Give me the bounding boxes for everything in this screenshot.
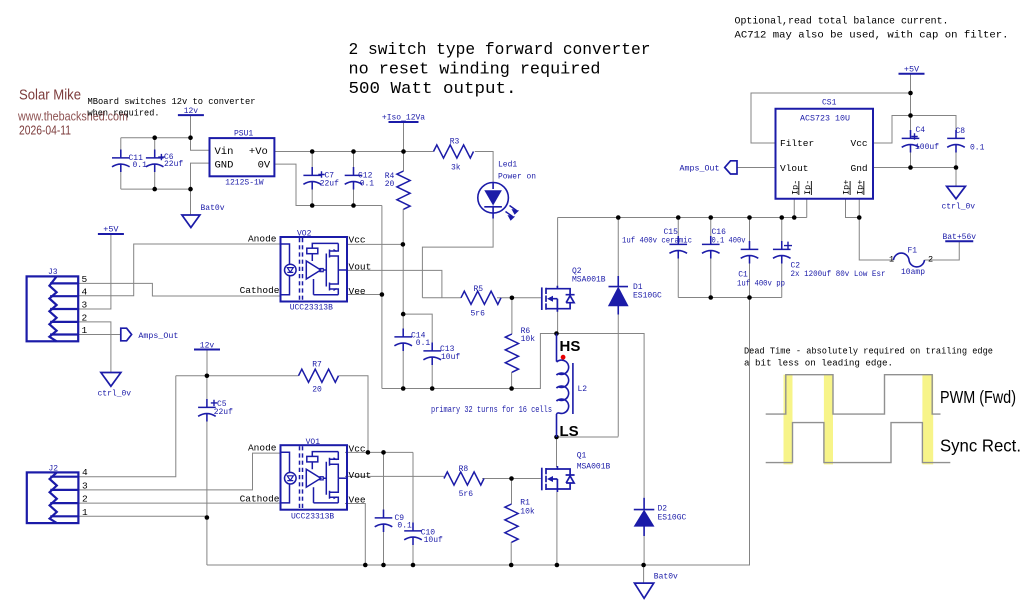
svg-text:Led1: Led1 — [498, 161, 517, 170]
wire junction at 353.5,205.5 — [351, 203, 356, 208]
svg-text:12v: 12v — [184, 107, 199, 116]
wire R3 to LED — [475, 152, 493, 183]
svg-text:2x 1200uf 80v Low Esr: 2x 1200uf 80v Low Esr — [791, 270, 886, 279]
wire C13 branch — [403, 314, 432, 388]
wire junction at 910.5,115.5 — [908, 113, 913, 118]
wire junction at 312.2,205.5 — [310, 203, 315, 208]
svg-text:LS: LS — [560, 423, 579, 440]
svg-text:3k: 3k — [451, 164, 461, 173]
capacitor C4 — [902, 130, 920, 153]
wire junction at 511.6,388.5 — [509, 386, 514, 391]
op-amp VO1 UCC23313B gate driver — [281, 445, 348, 510]
wire junction at 511.9,297.8 — [510, 296, 515, 301]
svg-text:Bat0v: Bat0v — [201, 204, 225, 213]
wire junction at 154.7,137.7 — [152, 135, 157, 140]
transistor Q1 MSA001B — [542, 466, 575, 492]
capacitor C15 — [669, 236, 687, 259]
svg-text:Vee: Vee — [349, 286, 366, 297]
svg-text:0.1: 0.1 — [360, 179, 375, 188]
svg-text:Solar Mike: Solar Mike — [19, 88, 81, 104]
wire VO1 vcc — [345, 452, 413, 565]
svg-text:10uf: 10uf — [441, 353, 460, 362]
wire junction at 413,565 — [411, 563, 416, 568]
svg-text:20: 20 — [385, 180, 395, 189]
capacitor C13 — [423, 343, 441, 366]
wire CS1 vcc branch — [873, 116, 956, 144]
wire VO2 vcc — [347, 243, 403, 245]
wire R1 stubs — [510, 479, 512, 566]
phase dot (red) — [561, 355, 566, 360]
capacitor C9 — [375, 510, 393, 533]
inductor L2 — [556, 334, 558, 362]
capacitor C8 — [947, 130, 965, 153]
svg-text:+5V: +5V — [103, 225, 119, 235]
wire CS1 gnd to ctrl_0v — [873, 153, 956, 187]
wire junction at 710.75,217.5 — [708, 215, 713, 220]
wire VO2 vee / 0V column — [347, 206, 557, 389]
svg-text:MSA001B: MSA001B — [577, 463, 611, 472]
wire R4 column — [402, 152, 404, 389]
svg-text:J2: J2 — [49, 465, 59, 474]
resistor R6 — [505, 334, 518, 372]
resistor R7 — [299, 369, 339, 382]
wire junction at 403.2,314.1 — [401, 312, 406, 317]
wire HV bus — [558, 199, 807, 218]
svg-text:10uf: 10uf — [424, 536, 443, 545]
svg-text:0.1: 0.1 — [416, 339, 431, 348]
svg-text:100uf: 100uf — [915, 143, 939, 152]
capacitor C16 — [702, 236, 720, 259]
svg-text:Vee: Vee — [349, 495, 366, 506]
svg-text:R3: R3 — [450, 138, 460, 147]
svg-text:Vin: Vin — [215, 146, 234, 158]
wire junction at 402.9,244.4 — [401, 242, 406, 247]
svg-text:no reset winding required: no reset winding required — [349, 60, 601, 79]
svg-text:5: 5 — [82, 274, 88, 285]
svg-text:ES10GC: ES10GC — [633, 292, 662, 301]
svg-text:D2: D2 — [658, 505, 668, 514]
resistor R3 — [434, 145, 474, 158]
svg-text:0.1: 0.1 — [970, 144, 985, 153]
svg-text:R8: R8 — [459, 465, 469, 474]
svg-text:Gnd: Gnd — [851, 163, 868, 174]
wire junction at 556.5,333.5 — [554, 331, 559, 336]
svg-text:0.1 400v: 0.1 400v — [712, 236, 746, 245]
wire junction at 190.5,189.1 — [188, 187, 193, 192]
svg-text:10k: 10k — [521, 335, 536, 344]
capacitor C11 — [112, 150, 130, 173]
power rail +Iso_12Va — [389, 121, 419, 123]
wire junction at 365.3,565 — [363, 563, 368, 568]
svg-text:5r6: 5r6 — [459, 490, 474, 499]
wire J2 pin2 to VO1 cathode — [79, 502, 281, 504]
wire C11 C6 top stubs — [121, 138, 155, 150]
svg-text:R7: R7 — [312, 361, 322, 370]
svg-text:PWM (Fwd): PWM (Fwd) — [940, 387, 1016, 407]
converter PSU1 1212S-1W — [210, 138, 275, 176]
wire J2 pin4 up to 12v bus — [79, 376, 176, 477]
svg-text:when required.: when required. — [88, 109, 160, 119]
wire bottom rail — [207, 298, 750, 566]
svg-text:20: 20 — [312, 385, 322, 394]
wire junction at 206.9,517.5 — [205, 515, 210, 520]
wire J2 pin1 — [79, 515, 207, 517]
svg-text:3: 3 — [82, 480, 88, 491]
svg-text:2: 2 — [82, 312, 88, 323]
wire 12v top rail to PSU1 — [121, 116, 210, 151]
LED Led1 Power on — [478, 183, 509, 214]
wire junction at 403.5,151.5 — [401, 149, 406, 154]
svg-text:Anode: Anode — [248, 443, 277, 454]
svg-text:Optional,read total balance cu: Optional,read total balance current. — [735, 16, 949, 28]
wire junction at 618.25,217.5 — [616, 215, 621, 220]
diode D2 ES10GC — [634, 498, 655, 536]
svg-text:C8: C8 — [956, 127, 966, 136]
wire junction at 511.2,565 — [509, 563, 514, 568]
svg-text:0.1: 0.1 — [133, 161, 148, 170]
svg-text:1uf 400v ceramic: 1uf 400v ceramic — [622, 236, 692, 245]
svg-text:GND: GND — [215, 159, 234, 171]
svg-text:Cathode: Cathode — [240, 285, 280, 296]
wire C11 C6 bottom rail / GND return — [121, 163, 210, 215]
svg-text:Filter: Filter — [780, 138, 814, 149]
svg-text:+Vo: +Vo — [249, 146, 268, 158]
wire C5 column — [206, 376, 208, 565]
wire junction at 794.25,217.5 — [792, 215, 797, 220]
wire +Iso_12Va stub — [403, 123, 405, 152]
power rail +5V (right) — [899, 73, 925, 75]
wire CS1 filter loop — [751, 74, 911, 168]
wire J3 pin5 to VO2 cathode — [78, 283, 280, 296]
wire Q1 source / bottom — [556, 492, 558, 565]
svg-text:10k: 10k — [520, 508, 535, 517]
svg-text:primary 32 turns for 16 cells: primary 32 turns for 16 cells — [431, 405, 552, 415]
svg-text:AC712 may also be used, with c: AC712 may also be used, with cap on filt… — [735, 30, 1009, 42]
svg-text:MBoard switches 12v to convert: MBoard switches 12v to converter — [88, 97, 256, 107]
wire HS to D2 — [557, 334, 645, 498]
svg-text:2026-04-11: 2026-04-11 — [19, 124, 71, 138]
svg-text:0.1: 0.1 — [397, 521, 412, 530]
svg-text:5r6: 5r6 — [471, 310, 486, 319]
resistor R8 — [444, 472, 484, 485]
svg-text:3: 3 — [82, 300, 88, 311]
node Amps_Out (right, CS1) — [725, 161, 737, 174]
wire junction at 956,167.5 — [954, 165, 959, 170]
svg-text:22uf: 22uf — [164, 160, 183, 169]
wire VO2 vout to R5 — [347, 270, 461, 297]
wire R5 to gate Q2 — [497, 297, 541, 299]
connector J2 — [27, 472, 79, 523]
svg-text:CS1: CS1 — [822, 99, 837, 108]
wire R8 to Q1 gate — [482, 478, 541, 480]
wire D1 stubs — [617, 218, 619, 437]
svg-text:500 Watt output.: 500 Watt output. — [349, 79, 517, 98]
svg-text:0V: 0V — [258, 159, 271, 171]
resistor R5 — [461, 291, 501, 304]
svg-text:F1: F1 — [908, 247, 918, 256]
wire LS — [557, 416, 619, 467]
ground Bat0v (PSU) — [182, 215, 200, 228]
svg-text:ACS723 10U: ACS723 10U — [800, 115, 850, 124]
svg-text:MSA001B: MSA001B — [572, 276, 606, 285]
transistor Q2 MSA001B — [542, 286, 575, 312]
capacitor C1 — [741, 241, 759, 264]
svg-text:Vlout: Vlout — [780, 163, 809, 174]
svg-text:HS: HS — [560, 338, 581, 355]
wire 12v bus (VO1 side) — [176, 351, 368, 453]
capacitor C2 — [773, 241, 791, 264]
wire D2 bottom to gnd — [643, 536, 646, 583]
svg-text:VO1: VO1 — [306, 438, 321, 447]
wire junction at 312.2,151.5 — [310, 149, 315, 154]
svg-text:2: 2 — [82, 494, 88, 505]
ground ctrl_0v (left) — [101, 373, 121, 387]
svg-text:4: 4 — [82, 467, 88, 478]
wire +5V to J3 pin3 — [78, 234, 111, 309]
svg-text:L2: L2 — [578, 385, 588, 394]
wire junction at 749.5,217.5 — [747, 215, 752, 220]
svg-text:Vcc: Vcc — [851, 138, 868, 149]
wire junction at 383.5,452.4 — [381, 450, 386, 455]
svg-text:Vout: Vout — [349, 470, 372, 481]
wire junction at 206.9,375.75 — [205, 373, 210, 378]
ground Bat0v (bottom) — [634, 583, 653, 598]
wire junction at 190.5,137.7 — [188, 135, 193, 140]
svg-text:VO2: VO2 — [297, 230, 312, 239]
wire CS1 Ip+ to fuse to Bat+56v — [846, 199, 960, 260]
svg-text:Vcc: Vcc — [349, 444, 366, 455]
capacitor C14 — [394, 329, 412, 352]
svg-text:2 switch type forward converte: 2 switch type forward converter — [349, 40, 651, 59]
wire junction at 432.2,388.5 — [430, 386, 435, 391]
svg-text:Q1: Q1 — [577, 452, 587, 461]
wire junction at 710.75,297.5 — [708, 295, 713, 300]
svg-text:R5: R5 — [474, 285, 484, 294]
svg-text:ctrl_0v: ctrl_0v — [98, 390, 132, 399]
wire junction at 643.6,565 — [641, 563, 646, 568]
svg-text:Vout: Vout — [349, 262, 372, 273]
wire J3 pin2 to ctrl_0v — [78, 322, 111, 373]
wire J3 pin4 to VO2 anode — [78, 244, 280, 296]
op-amp VO2 UCC23313B gate driver — [281, 237, 348, 302]
wire junction at 383.5,565 — [381, 563, 386, 568]
wire junction at 367.9,452.4 — [366, 450, 371, 455]
wire junction at 556.5,437 — [554, 435, 559, 440]
wire CS1 vlout to Amps_Out — [737, 167, 776, 169]
waveform dead-time highlight bars — [784, 375, 793, 465]
svg-text:C1: C1 — [738, 270, 748, 279]
svg-text:2: 2 — [928, 255, 933, 265]
wire J3 pin1 to Amps_Out — [78, 334, 121, 336]
svg-text:Sync Rect.: Sync Rect. — [940, 436, 1021, 456]
wire junction at 910.5,167.5 — [908, 165, 913, 170]
connector J3 — [27, 276, 79, 341]
wire junction at 154.7,189.1 — [152, 187, 157, 192]
wire junction at 556.9,565 — [555, 563, 560, 568]
capacitor C6 — [146, 150, 164, 173]
wire J2 pin3 to VO1 anode — [79, 453, 281, 490]
svg-text:R1: R1 — [520, 499, 530, 508]
waveform Sync Rect trace — [766, 423, 951, 463]
svg-text:a bit less on leading edge.: a bit less on leading edge. — [744, 359, 893, 369]
svg-text:ctrl_0v: ctrl_0v — [942, 203, 976, 212]
svg-text:Power on: Power on — [498, 173, 536, 182]
wire junction at 781.75,217.5 — [779, 215, 784, 220]
wire +Vo rail — [275, 151, 434, 153]
svg-text:4: 4 — [82, 286, 88, 297]
wire VO1 vout to R8 — [345, 475, 444, 477]
svg-text:PSU1: PSU1 — [234, 129, 253, 138]
svg-text:UCC23313B: UCC23313B — [291, 513, 334, 522]
svg-text:+Iso_12Va: +Iso_12Va — [382, 114, 425, 123]
wire junction at 678.25,217.5 — [676, 215, 681, 220]
diode D1 ES10GC — [609, 276, 629, 315]
power rail +5V (left) — [98, 233, 124, 235]
svg-text:Dead Time - absolutely require: Dead Time - absolutely required on trail… — [744, 347, 993, 357]
svg-text:C4: C4 — [916, 126, 926, 135]
power rail 12v (top) — [178, 114, 204, 116]
svg-text:1uf 400v pp: 1uf 400v pp — [737, 280, 785, 289]
svg-text:Bat0v: Bat0v — [654, 573, 678, 582]
wire junction at 859.25,217.5 — [857, 215, 862, 220]
wire R6 stubs — [511, 298, 513, 389]
svg-text:1: 1 — [889, 255, 894, 265]
wire junction at 353.5,151.5 — [351, 149, 356, 154]
capacitor C7 — [303, 167, 321, 190]
wire junction at 511.5,478.5 — [509, 476, 514, 481]
svg-text:Bat+56v: Bat+56v — [942, 233, 976, 242]
svg-text:Anode: Anode — [248, 234, 277, 245]
wire C7 C12 stubs and 0V return — [275, 152, 382, 206]
svg-text:ES10GC: ES10GC — [658, 514, 687, 523]
svg-text:Vcc: Vcc — [349, 235, 366, 246]
node Amps_Out (left, J3) — [121, 328, 132, 341]
power rail Bat+56v — [945, 240, 973, 242]
wire Q2 drain — [557, 218, 559, 334]
power rail 12v (left mid) — [194, 349, 220, 351]
wire junction at 403.2,388.5 — [401, 386, 406, 391]
svg-text:22uf: 22uf — [214, 408, 233, 417]
svg-text:10amp: 10amp — [901, 268, 925, 277]
op-amp CS1 ACS723 current sensor — [776, 109, 874, 199]
svg-text:Cathode: Cathode — [240, 494, 280, 505]
wire junction at 749.5,297.5 — [747, 295, 752, 300]
capacitor C10 — [404, 523, 422, 546]
capacitor C12 — [345, 167, 363, 190]
wire caps C15 C16 C1 C2 columns — [678, 218, 782, 298]
svg-text:Amps_Out: Amps_Out — [680, 165, 720, 174]
svg-text:1: 1 — [82, 507, 88, 518]
wire VO1 vee — [345, 504, 365, 566]
svg-text:+5V: +5V — [904, 65, 920, 75]
svg-text:UCC23313B: UCC23313B — [290, 304, 333, 313]
svg-text:Amps_Out: Amps_Out — [138, 332, 178, 341]
svg-text:1212S-1W: 1212S-1W — [225, 178, 264, 187]
svg-text:1: 1 — [82, 325, 88, 336]
svg-text:22uf: 22uf — [320, 179, 339, 188]
wire LED cathode down-left — [422, 219, 493, 298]
waveform PWM (Fwd) trace — [766, 375, 941, 414]
wire junction at 381.9,294.5 — [380, 292, 385, 297]
ground ctrl_0v (right) — [947, 186, 966, 199]
svg-text:J3: J3 — [48, 268, 58, 277]
fuse F1 10amp — [894, 253, 925, 267]
wire junction at 910.5,93 — [908, 91, 913, 96]
resistor R4 — [397, 171, 410, 209]
resistor R1 — [505, 504, 518, 542]
svg-text:12v: 12v — [200, 342, 215, 351]
capacitor C5 — [198, 399, 216, 422]
